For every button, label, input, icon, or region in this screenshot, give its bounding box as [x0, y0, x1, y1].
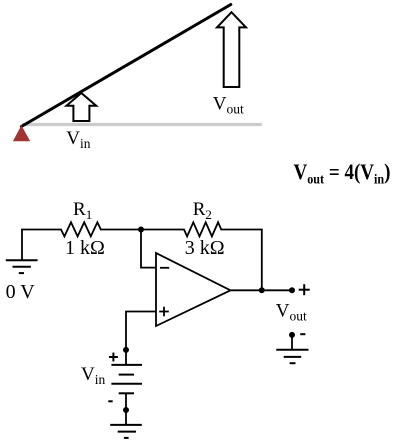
- svg-text:R1: R1: [73, 199, 92, 222]
- svg-text:1 kΩ: 1 kΩ: [65, 237, 105, 259]
- svg-text:Vin: Vin: [66, 128, 90, 151]
- svg-text:Vin: Vin: [81, 364, 105, 387]
- svg-text:R2: R2: [193, 199, 212, 222]
- svg-text:3 kΩ: 3 kΩ: [185, 237, 225, 259]
- svg-text:Vout = 4(Vin): Vout = 4(Vin): [294, 159, 391, 188]
- svg-text:0 V: 0 V: [6, 281, 36, 303]
- svg-text:Vout: Vout: [276, 300, 307, 323]
- svg-text:Vout: Vout: [213, 94, 244, 117]
